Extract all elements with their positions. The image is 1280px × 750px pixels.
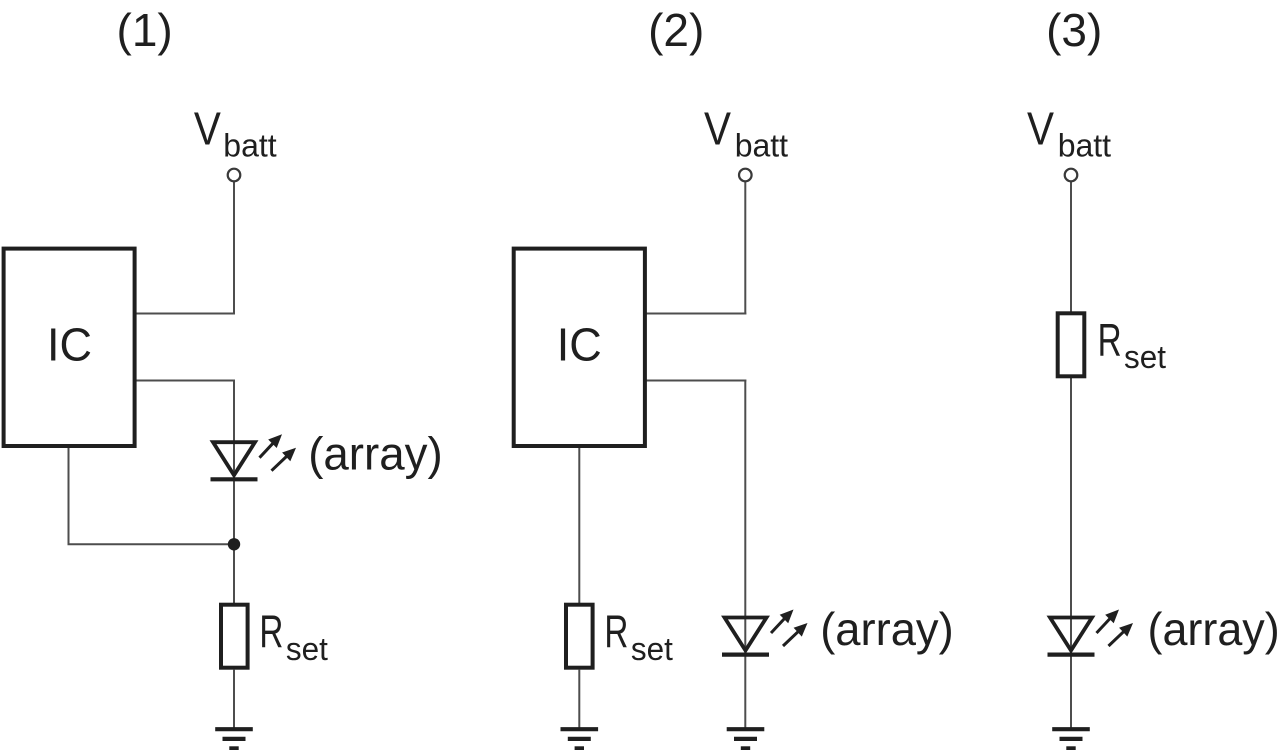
svg-text:R: R bbox=[259, 606, 283, 658]
svg-text:batt: batt bbox=[735, 127, 788, 163]
svg-text:set: set bbox=[1124, 339, 1166, 375]
svg-text:V: V bbox=[1027, 102, 1054, 154]
svg-text:IC: IC bbox=[557, 319, 602, 371]
svg-text:set: set bbox=[631, 631, 673, 667]
svg-text:(3): (3) bbox=[1046, 4, 1102, 56]
svg-text:V: V bbox=[194, 102, 221, 154]
svg-text:R: R bbox=[604, 606, 628, 658]
svg-text:IC: IC bbox=[47, 319, 92, 371]
svg-text:(array): (array) bbox=[308, 427, 443, 479]
svg-text:(2): (2) bbox=[648, 4, 704, 56]
svg-text:set: set bbox=[286, 631, 328, 667]
svg-text:R: R bbox=[1098, 314, 1122, 366]
svg-text:batt: batt bbox=[1058, 127, 1111, 163]
svg-text:(array): (array) bbox=[820, 603, 954, 655]
svg-text:batt: batt bbox=[223, 127, 276, 163]
svg-text:(array): (array) bbox=[1148, 603, 1280, 655]
svg-text:V: V bbox=[704, 102, 731, 154]
svg-text:(1): (1) bbox=[117, 4, 173, 56]
